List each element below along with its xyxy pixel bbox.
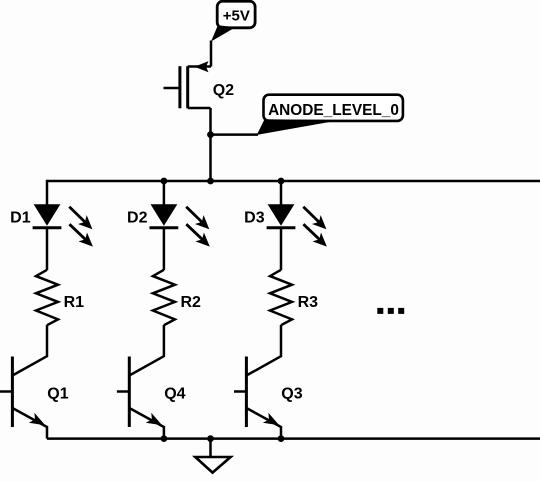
wire node to ANODE_LEVEL_0 flag — [211, 133, 259, 136]
net flag ANODE_LEVEL_0 — [257, 95, 403, 135]
svg-text:R3: R3 — [298, 294, 319, 311]
wire anode bus to D2 — [163, 180, 166, 205]
wire emitter bus (horizontal, ground rail) — [47, 437, 540, 440]
wire D1 cathode to R1 — [46, 228, 49, 270]
wire R3 to Q3 collector — [246, 325, 281, 376]
svg-text:R2: R2 — [181, 294, 202, 311]
wire +5V flag to Q2 source — [210, 41, 213, 67]
svg-text:D1: D1 — [10, 210, 31, 227]
svg-text:Q2: Q2 — [213, 82, 234, 99]
junction anode bus / Q2 drain — [207, 178, 214, 185]
wire anode bus (horizontal) — [47, 180, 540, 183]
wire anode bus to D3 — [280, 180, 283, 205]
LED D2 — [150, 204, 210, 246]
wire R1 to Q1 collector — [12, 325, 47, 376]
resistor R3 — [270, 270, 292, 325]
transistor Q1 (NPN) — [0, 357, 47, 439]
svg-text:Q3: Q3 — [281, 385, 302, 402]
junction on Q2 drain wire (node ANODE_LEVEL_0) — [207, 131, 214, 138]
svg-text:Q1: Q1 — [47, 385, 68, 402]
wire D2 cathode to R2 — [163, 228, 166, 270]
ellipsis (more columns) — [377, 308, 404, 314]
LED D3 — [267, 204, 327, 246]
svg-text:R1: R1 — [64, 294, 85, 311]
resistor R2 — [153, 270, 175, 325]
svg-text:D2: D2 — [127, 210, 148, 227]
resistor R1 — [36, 270, 58, 325]
junction emitter bus / Q3 — [278, 435, 285, 442]
power flag +5V — [211, 1, 255, 41]
wire anode bus to D1 — [46, 180, 49, 205]
transistor Q4 (NPN) — [117, 357, 164, 439]
svg-text:Q4: Q4 — [164, 385, 185, 402]
svg-text:D3: D3 — [244, 210, 265, 227]
wire Q2 drain to anode bus — [209, 108, 212, 181]
LED D1 — [33, 204, 93, 246]
junction emitter bus / Q4 — [161, 435, 168, 442]
junction emitter bus / ground — [207, 435, 214, 442]
wire D3 cathode to R3 — [280, 228, 283, 270]
transistor Q3 (NPN) — [234, 357, 281, 439]
transistor Q2 (P-MOSFET) — [164, 61, 212, 108]
junction anode bus / D2 — [161, 178, 168, 185]
svg-text:+5V: +5V — [223, 8, 250, 25]
svg-text:ANODE_LEVEL_0: ANODE_LEVEL_0 — [268, 102, 399, 119]
junction anode bus / D3 — [278, 178, 285, 185]
ground — [195, 439, 230, 473]
wire R2 to Q4 collector — [129, 325, 164, 376]
